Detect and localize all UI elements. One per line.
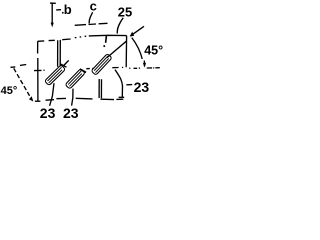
label b [64,2,72,17]
slot 1 [44,65,65,86]
bottom dashed line [46,98,124,100]
label 25 [118,4,132,19]
svg-text:45°: 45° [144,43,163,57]
left 45 deg angled dashed ray [14,68,32,99]
slit above slot 3 [104,36,106,47]
slot 2 [65,69,85,90]
slot 1 leader [50,83,54,106]
svg-text:b: b [64,2,72,17]
slit above slot 1 [58,40,61,67]
left 45 deg arrowhead [29,96,33,101]
label b leader dot [62,12,64,14]
svg-text:25: 25 [118,4,132,19]
right 45 deg ray [131,26,144,36]
label c leader [89,12,92,23]
dashed reference line c [75,23,108,25]
label 23 second [63,105,79,121]
label b leader dash [56,9,61,11]
dimension b arrowhead [51,23,54,28]
plate right outer edge [125,36,127,68]
dimension b vertical line [50,3,56,23]
plate left edge bottom foot [35,100,41,102]
right 45 deg ray arrowhead [130,32,135,37]
plate right inner edge foot [119,96,125,98]
right 45 deg arc bottom shaft [143,61,145,67]
label c [90,0,97,14]
svg-text:c: c [90,0,97,14]
label 23 first [40,105,56,121]
label 45 deg right [144,43,163,57]
svg-text:23: 23 [134,79,150,95]
plate top edge dashed left part [38,36,87,41]
slot 3 [91,54,112,76]
slot 2 top cap [80,69,86,72]
plate top edge solid right part [89,34,127,37]
svg-text:45°: 45° [1,85,18,97]
center line dash-dot [34,67,160,71]
slot 3 lower legs [99,79,101,98]
plate left edge [37,41,39,100]
label 45 deg left [1,85,18,97]
label 23 third [134,79,150,95]
left 45 deg reference dashes [11,65,27,68]
label 23 third leader dash [126,84,132,86]
label 25 leader [117,18,123,34]
plate right inner edge [115,70,123,97]
slot 2 leader [72,89,73,106]
svg-text:23: 23 [63,105,79,120]
slot 1 end collar ticks [61,60,69,67]
svg-text:23: 23 [40,105,56,120]
right 45 deg bottom arrowhead [143,63,146,68]
right 45 deg arc [132,38,142,59]
slot 3 axis extension [107,41,126,57]
